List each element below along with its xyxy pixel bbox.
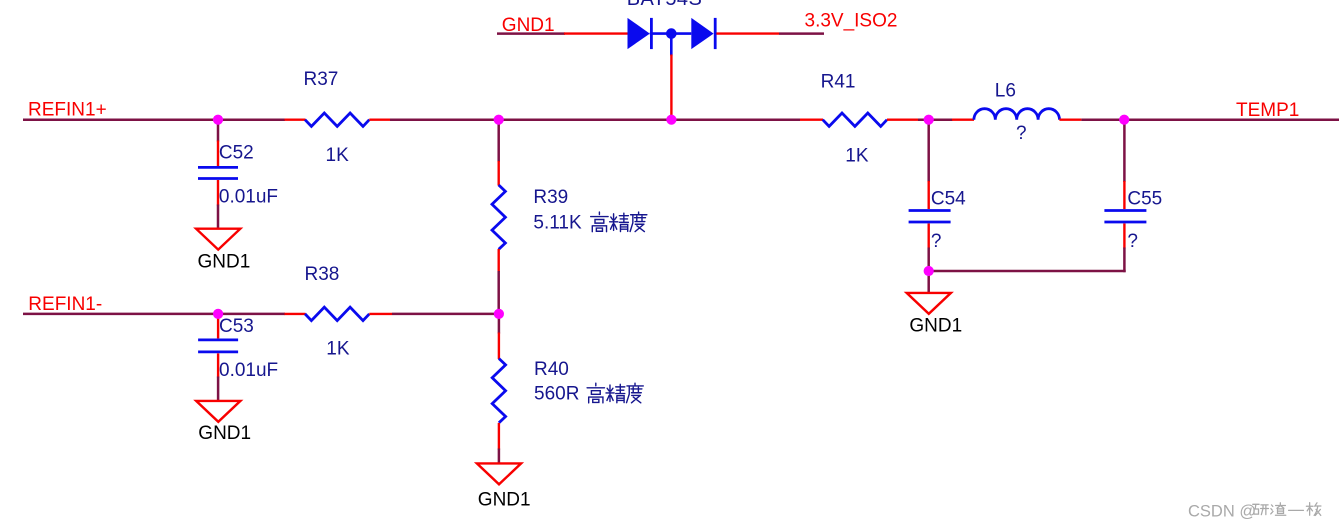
pin D1 anode [564,32,628,34]
svg-text:GND1: GND1 [198,252,251,273]
pin C52.1 [217,141,219,167]
junction node R39 top [494,115,504,125]
value CJK gao-jing-du (R39) [591,212,647,232]
svg-text:C53: C53 [219,316,254,337]
pin C53.1 [217,314,219,339]
svg-text:R40: R40 [534,359,569,380]
value CJK gao-jing-du (R40) [587,383,643,403]
pin R41.1 [800,118,823,120]
wire R40 bottom [498,449,501,464]
junction node C53 tap [213,309,223,319]
ground symbol GND1 (R40) [477,463,521,484]
svg-text:0.01uF: 0.01uF [219,360,278,381]
junction node R40 top [494,309,504,319]
wire R39 bottom [497,271,500,314]
wire C55 top [1123,120,1126,182]
wire to 3.3V_ISO2 [779,32,824,35]
pin D2 cathode [716,32,779,34]
svg-text:L6: L6 [995,80,1016,101]
junction node C52 tap [213,115,223,125]
svg-text:1K: 1K [326,339,350,360]
pin R41.2 [887,118,918,120]
wire C52 top [217,120,220,142]
svg-text:GND1: GND1 [478,489,531,510]
junction node diode tap [666,115,676,125]
pin R37.1 [285,118,306,120]
wire C52 bottom [217,205,220,229]
svg-text:GND1: GND1 [909,316,962,337]
svg-text:C55: C55 [1127,188,1162,209]
wire row1 right to TEMP1 [1081,118,1339,121]
wire ground bus horizontal [929,270,1126,273]
svg-text:REFIN1-: REFIN1- [28,294,102,315]
junction node C55 tap [1119,115,1129,125]
wire C54 top [927,120,930,182]
wire R40 top [498,314,501,334]
svg-text:R37: R37 [304,69,339,90]
resistor R39 [492,185,505,249]
capacitor C53 [198,340,238,352]
resistor R41 [823,113,887,126]
wire internal BAT54S [650,32,692,35]
pin R39.1 [498,161,500,186]
svg-text:1K: 1K [845,146,869,167]
resistor R40 [492,359,505,423]
svg-text:?: ? [1127,231,1138,252]
junction BAT54S common cathode node [666,28,677,55]
svg-text:1K: 1K [326,145,350,166]
svg-text:R38: R38 [305,264,340,285]
wire R39 top [497,120,500,162]
capacitor C55 [1104,211,1146,223]
inductor L6 [974,109,1060,120]
svg-text:TEMP1: TEMP1 [1236,100,1299,121]
resistor R37 [305,113,369,126]
svg-text:REFIN1+: REFIN1+ [28,99,107,120]
wire GND1 stub dark [497,32,565,35]
svg-text:560R: 560R [534,384,579,405]
pin R40.1 [498,333,500,360]
wire row2 right [392,313,499,316]
ground symbol GND1 (C54/C55) [907,293,951,314]
svg-text:R41: R41 [821,72,856,93]
wire REFIN1- left [23,313,285,316]
resistor R38 [305,307,369,320]
diode D1 of BAT54S [628,18,652,49]
svg-text:0.01uF: 0.01uF [219,187,278,208]
watermark CSDN [1188,503,1321,521]
capacitor C52 [198,167,238,178]
pin C53.2 [217,353,219,377]
wire REFIN1+ left [23,118,285,121]
svg-text:C54: C54 [931,188,966,209]
pin R38.2 [369,313,392,315]
pin C55.1 [1123,181,1125,209]
svg-text:GND1: GND1 [502,15,555,36]
wire C54 to ground [927,271,930,293]
ground symbol GND1 (C53) [196,401,240,422]
svg-text:C52: C52 [219,143,254,164]
pin R37.2 [369,118,390,120]
wire C53 bottom [217,377,220,401]
svg-text:5.11K: 5.11K [533,212,582,233]
pin L6.2 [1059,118,1081,120]
capacitor C54 [909,211,951,223]
diode D2 of BAT54S [691,18,715,49]
ground symbol GND1 (C52) [196,229,240,250]
svg-text:BAT54S: BAT54S [627,0,702,10]
junction node ground bus [924,266,934,276]
wire C55 bottom [1123,248,1126,273]
pin C54.2 [928,224,930,249]
svg-text:GND1: GND1 [198,423,251,444]
pin C52.2 [217,180,219,206]
wire row1 R41 to L6 [918,118,953,121]
svg-text:R39: R39 [533,187,568,208]
junction node C54 tap [924,115,934,125]
pin L6.1 [952,118,974,120]
wire BAT54S tap vertical [670,55,672,118]
wire row1 mid [390,118,800,121]
svg-text:?: ? [931,231,942,252]
svg-text:3.3V_ISO2: 3.3V_ISO2 [805,10,898,31]
pin R38.1 [285,313,306,315]
pin C55.2 [1123,224,1125,249]
svg-text:?: ? [1016,123,1027,144]
pin C54.1 [928,181,930,209]
pin R40.2 [498,423,500,450]
wire C54 bottom [927,248,930,272]
pin R39.2 [498,249,500,272]
svg-text:CSDN @: CSDN @ [1188,503,1256,521]
